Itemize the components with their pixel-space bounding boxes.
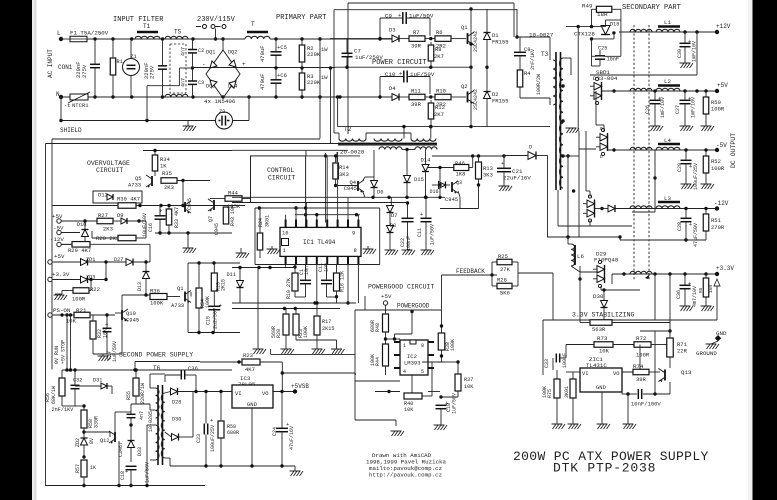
capacitor <box>271 52 282 55</box>
ground <box>499 186 513 191</box>
wire <box>601 392 603 424</box>
junction <box>300 37 303 40</box>
ground <box>706 344 720 349</box>
wire <box>338 133 340 139</box>
wire <box>478 156 480 162</box>
fuse F1 <box>70 36 87 42</box>
wire <box>373 188 375 198</box>
core bar <box>658 25 680 27</box>
wire sense <box>716 286 718 320</box>
transistor <box>658 368 665 382</box>
resistor R54 <box>196 288 202 308</box>
wire <box>305 203 307 228</box>
resistor R56 <box>59 378 65 396</box>
junction <box>197 261 200 264</box>
wire <box>519 37 521 52</box>
wire <box>557 190 559 226</box>
wire <box>402 149 415 151</box>
junction <box>405 196 408 199</box>
svg-text:+: + <box>219 302 222 309</box>
wire <box>422 361 445 363</box>
junction <box>161 37 164 40</box>
svg-text:D30: D30 <box>172 417 181 423</box>
wire <box>198 263 200 288</box>
svg-text:D: D <box>529 145 532 151</box>
junction <box>93 95 96 98</box>
resistor R43 <box>223 207 229 224</box>
svg-text:POWERGOOD: POWERGOOD <box>397 303 430 310</box>
svg-text:D6: D6 <box>377 189 384 196</box>
svg-text:4n7: 4n7 <box>181 47 187 56</box>
wire riser <box>669 274 671 323</box>
wire <box>585 156 587 191</box>
svg-text:R22: R22 <box>90 286 100 293</box>
capacitor <box>71 385 80 388</box>
svg-text:+3.3V: +3.3V <box>716 265 734 272</box>
wire <box>549 37 551 60</box>
wire <box>92 339 94 354</box>
transformer T3 secondary winding <box>560 58 564 188</box>
diode D4 <box>392 94 399 101</box>
svg-text:R17: R17 <box>322 319 331 325</box>
wire <box>547 236 620 238</box>
junction <box>247 95 250 98</box>
resistor R15 <box>211 273 217 291</box>
toroid winding +12V <box>630 29 652 32</box>
junction <box>566 154 569 157</box>
junction <box>204 390 207 393</box>
capacitor C11 symbol <box>90 64 100 67</box>
svg-text:PS-ON: PS-ON <box>53 307 71 314</box>
wire <box>55 293 62 295</box>
svg-text:L1: L1 <box>664 19 671 26</box>
wire <box>281 362 283 392</box>
junction <box>602 288 605 291</box>
junction <box>572 189 575 192</box>
svg-text:C945: C945 <box>344 185 357 192</box>
transformer T6 primary winding <box>156 388 160 418</box>
wire <box>106 332 108 354</box>
svg-text:D: D <box>600 126 603 132</box>
wire <box>595 208 609 210</box>
svg-text:C36: C36 <box>188 365 198 372</box>
wire <box>170 465 232 467</box>
junction <box>318 37 321 40</box>
wire <box>567 237 569 244</box>
wire +5VSB branch <box>282 372 355 374</box>
wire <box>192 84 194 97</box>
svg-text:ZD2: ZD2 <box>75 438 81 447</box>
svg-text:FEEDBACK: FEEDBACK <box>456 268 485 275</box>
resistor R22 <box>73 288 89 294</box>
capacitor <box>595 56 605 59</box>
junction <box>440 354 443 357</box>
wire <box>61 220 97 222</box>
svg-text:C11: C11 <box>417 228 423 237</box>
ground <box>568 424 582 429</box>
wire <box>112 75 114 97</box>
junction <box>105 313 108 316</box>
diode D3 <box>392 35 399 42</box>
junction <box>59 119 62 122</box>
wire 3.3 box top <box>543 319 717 321</box>
junction <box>424 196 427 199</box>
wire <box>92 315 94 321</box>
svg-text:IC1 TL494: IC1 TL494 <box>303 239 336 246</box>
svg-text:1uF/50V: 1uF/50V <box>430 224 436 245</box>
diode <box>143 272 150 279</box>
resistor R53 <box>703 278 709 297</box>
wire <box>154 171 156 176</box>
junction <box>387 196 390 199</box>
wire <box>136 237 146 239</box>
svg-text:2SC4242: 2SC4242 <box>473 89 479 110</box>
wire <box>301 39 303 45</box>
svg-text:+: + <box>159 208 162 215</box>
wire <box>130 39 132 59</box>
dual schottky diode <box>590 77 602 104</box>
junction <box>186 231 189 234</box>
box control circuit <box>251 156 306 203</box>
wire <box>565 345 567 354</box>
svg-text:100nF: 100nF <box>406 236 412 251</box>
svg-text:3K3: 3K3 <box>483 172 493 179</box>
svg-text:D: D <box>600 154 603 160</box>
wire <box>326 264 328 280</box>
junction <box>683 89 686 92</box>
junction <box>378 37 381 40</box>
svg-text:C945: C945 <box>187 198 193 210</box>
wire <box>592 38 615 40</box>
resistor R4 <box>517 70 523 87</box>
svg-text:1uF/250V: 1uF/250V <box>355 54 383 61</box>
resistor R21 <box>74 312 90 318</box>
pin PS-ON <box>48 313 52 317</box>
svg-text:SECOND POWER SUPPLY: SECOND POWER SUPPLY <box>119 352 193 359</box>
wire <box>233 120 250 122</box>
wire <box>622 371 640 373</box>
wire <box>563 57 571 59</box>
wire <box>131 403 150 405</box>
junction <box>257 266 260 269</box>
wire <box>580 322 590 324</box>
wire <box>385 366 387 375</box>
svg-text:R57: R57 <box>75 464 81 473</box>
wire enclosure top inner <box>52 138 320 140</box>
wire <box>654 104 656 126</box>
svg-text:L2: L2 <box>664 78 671 85</box>
junction <box>191 95 194 98</box>
ground <box>421 250 435 255</box>
junction <box>280 464 283 467</box>
wire feedback sense <box>552 273 554 320</box>
diode <box>81 276 88 283</box>
wire top feed <box>348 2 514 4</box>
wire <box>649 371 660 373</box>
wire <box>428 167 454 169</box>
transformer T core <box>247 31 268 34</box>
svg-text:D16: D16 <box>430 189 439 195</box>
junction <box>304 213 307 216</box>
terminal +3.3V <box>715 272 719 276</box>
wire <box>275 68 277 80</box>
inductor L1 <box>656 29 680 32</box>
wire <box>355 419 396 421</box>
svg-text:+12V: +12V <box>716 23 731 30</box>
wire <box>549 98 551 105</box>
wire <box>52 279 81 281</box>
wire <box>560 357 566 359</box>
wire <box>169 458 171 466</box>
wire <box>149 404 151 410</box>
wire <box>685 222 687 240</box>
wire <box>654 91 656 100</box>
wire <box>168 225 170 233</box>
terminal -5V <box>715 148 719 152</box>
wire N <box>61 96 205 98</box>
junction <box>471 154 474 157</box>
wire <box>147 85 179 87</box>
diode <box>422 165 429 172</box>
wire <box>114 412 116 432</box>
junction <box>89 278 92 281</box>
diode <box>237 281 244 288</box>
svg-text:230V/115V: 230V/115V <box>197 16 236 24</box>
junction <box>129 484 132 487</box>
wire <box>190 292 192 297</box>
svg-text:2u2/50V: 2u2/50V <box>213 308 219 329</box>
wire <box>52 261 81 263</box>
resistor R8 <box>428 45 434 61</box>
svg-text:20-0028: 20-0028 <box>340 149 365 156</box>
core bar <box>658 201 680 203</box>
wire <box>167 296 180 298</box>
svg-text:C945: C945 <box>445 196 458 203</box>
wire <box>478 179 480 185</box>
svg-text:R28 2K3: R28 2K3 <box>96 235 119 242</box>
wire <box>232 302 356 304</box>
svg-text:D4: D4 <box>389 85 396 92</box>
svg-text:AC INPUT: AC INPUT <box>47 49 54 78</box>
wire <box>220 438 222 466</box>
wire <box>451 96 466 98</box>
svg-text:+3.3V: +3.3V <box>52 271 70 278</box>
wire <box>491 262 493 286</box>
junction <box>280 390 283 393</box>
transformer T2 winding 1 <box>339 139 366 142</box>
capacitor <box>321 280 332 283</box>
diode <box>387 206 394 213</box>
wire <box>654 150 656 212</box>
svg-text:220K: 220K <box>307 79 321 86</box>
resistor R3 <box>299 73 305 90</box>
wire <box>115 312 122 314</box>
wire <box>232 465 295 467</box>
svg-text:+: + <box>689 221 692 228</box>
svg-text:CIRCUIT: CIRCUIT <box>96 167 123 174</box>
svg-text:CIRCUIT: CIRCUIT <box>268 175 295 182</box>
capacitor <box>127 414 136 417</box>
wire <box>684 91 686 100</box>
svg-text:Q13: Q13 <box>681 369 692 376</box>
svg-text:R26: R26 <box>497 277 507 284</box>
svg-text:D3: D3 <box>389 27 396 34</box>
wire <box>192 39 194 50</box>
svg-text:T1: T1 <box>143 23 151 30</box>
ground <box>331 349 345 354</box>
wire <box>281 392 283 429</box>
wire box2 top <box>135 361 200 363</box>
junction <box>145 484 148 487</box>
svg-text:1W: 1W <box>321 74 328 81</box>
capacitor <box>181 371 184 380</box>
wire <box>611 274 613 284</box>
wire <box>586 190 590 192</box>
wire <box>296 339 337 341</box>
svg-text:+5V: +5V <box>381 293 392 300</box>
wire <box>149 244 151 252</box>
svg-text:100K: 100K <box>450 339 456 351</box>
wire <box>52 205 118 207</box>
wire <box>192 53 194 66</box>
junction <box>695 89 698 92</box>
resistor R16 <box>334 273 340 291</box>
svg-text:1uF/50V: 1uF/50V <box>145 462 151 483</box>
wire <box>445 361 458 363</box>
resistor R72 <box>634 342 651 348</box>
svg-text:100uF/25V: 100uF/25V <box>210 425 216 452</box>
wire <box>512 285 518 287</box>
ground <box>281 349 295 354</box>
wire IC outer box top <box>255 207 380 209</box>
wire <box>130 470 132 486</box>
wire <box>430 100 432 103</box>
resistor R10 <box>435 94 451 100</box>
capacitor <box>680 38 692 47</box>
wire <box>486 40 488 68</box>
diode <box>528 152 536 160</box>
wire <box>407 76 430 78</box>
svg-text:D33: D33 <box>137 447 143 456</box>
junction <box>197 331 200 334</box>
wire <box>503 172 505 186</box>
resistor R55 <box>133 378 139 396</box>
capacitor <box>103 321 112 332</box>
wire <box>589 221 591 227</box>
svg-text:F10PQ48: F10PQ48 <box>594 257 619 264</box>
ground <box>363 249 377 254</box>
junction <box>133 368 136 371</box>
wire <box>486 99 488 127</box>
IC1 pin riser wires <box>286 152 359 220</box>
svg-text:560R: 560R <box>271 326 277 338</box>
wire <box>60 97 62 121</box>
junction <box>684 148 687 151</box>
wire <box>84 431 110 433</box>
wire <box>146 261 150 263</box>
ground <box>391 431 405 436</box>
wire <box>622 393 637 395</box>
svg-text:F1 T5A/250V: F1 T5A/250V <box>70 30 109 37</box>
wire <box>520 97 550 99</box>
junction <box>82 404 85 407</box>
svg-text:R10: R10 <box>436 88 446 95</box>
junction <box>82 430 85 433</box>
svg-text:8: 8 <box>421 343 424 349</box>
IC2 notch <box>410 340 416 344</box>
svg-text:1mF/10V: 1mF/10V <box>691 97 697 118</box>
svg-text:1mF/10V: 1mF/10V <box>660 97 666 118</box>
svg-text:0V RUN: 0V RUN <box>54 346 60 364</box>
wire <box>336 185 358 187</box>
toroid winding -12V <box>630 206 652 209</box>
junction <box>69 313 72 316</box>
junction <box>274 37 277 40</box>
wire <box>592 65 601 67</box>
junction <box>577 25 580 28</box>
svg-text:+5V: +5V <box>54 253 65 260</box>
wire <box>425 172 427 198</box>
wire <box>106 315 108 328</box>
junction <box>704 207 707 210</box>
inductor L2 <box>656 88 680 91</box>
wire <box>363 177 366 181</box>
capacitor <box>155 208 166 220</box>
resistor R24 <box>257 233 263 250</box>
svg-text:GND: GND <box>247 401 258 408</box>
capacitor <box>681 160 693 170</box>
junction <box>167 204 170 207</box>
wire <box>566 371 580 373</box>
wire <box>74 370 76 385</box>
svg-text:220K: 220K <box>307 51 321 58</box>
svg-text:Q1: Q1 <box>177 285 184 292</box>
diode <box>601 26 610 35</box>
svg-text:100K: 100K <box>370 354 376 366</box>
junction <box>60 313 63 316</box>
wire <box>705 231 707 240</box>
wire <box>516 9 518 37</box>
wire collector bus <box>470 9 472 127</box>
svg-text:100R: 100R <box>636 352 650 359</box>
wire <box>178 68 180 86</box>
wire <box>121 295 123 310</box>
ground <box>701 306 715 311</box>
wire L <box>61 38 70 40</box>
wire +3.3V rail <box>612 273 717 275</box>
transistor <box>468 90 475 104</box>
wire <box>150 459 156 461</box>
wire <box>159 219 161 233</box>
junction <box>250 464 253 467</box>
pin -5V <box>57 230 61 234</box>
wire <box>389 213 391 226</box>
wire bus B <box>330 68 332 144</box>
wire <box>239 268 241 281</box>
left black margin <box>0 0 32 500</box>
wire enclosure bottom <box>46 485 206 487</box>
junction <box>293 265 296 268</box>
svg-text:3K01: 3K01 <box>564 386 570 398</box>
wire <box>399 38 409 40</box>
wire +5V rail <box>614 90 717 92</box>
wire <box>326 284 328 297</box>
transformer T6 core <box>157 385 159 465</box>
wire <box>62 405 75 407</box>
svg-text:R27: R27 <box>98 212 108 219</box>
wire <box>305 284 307 297</box>
capacitor <box>342 53 353 56</box>
